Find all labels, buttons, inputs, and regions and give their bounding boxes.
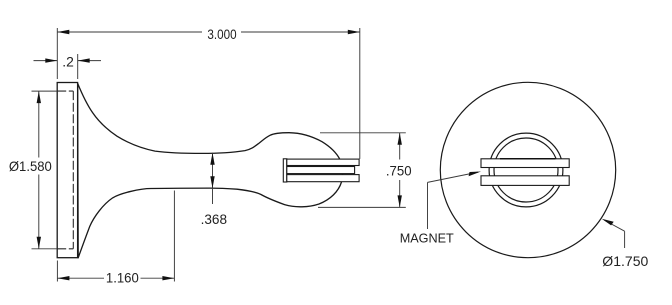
svg-text:.368: .368 — [201, 212, 228, 227]
svg-text:Ø1.580: Ø1.580 — [9, 159, 52, 174]
svg-text:Ø1.750: Ø1.750 — [602, 254, 648, 269]
svg-text:3.000: 3.000 — [207, 27, 236, 42]
svg-text:MAGNET: MAGNET — [400, 231, 454, 246]
svg-text:.750: .750 — [386, 163, 412, 178]
svg-text:1.160: 1.160 — [106, 270, 139, 285]
svg-text:.2: .2 — [62, 55, 74, 70]
